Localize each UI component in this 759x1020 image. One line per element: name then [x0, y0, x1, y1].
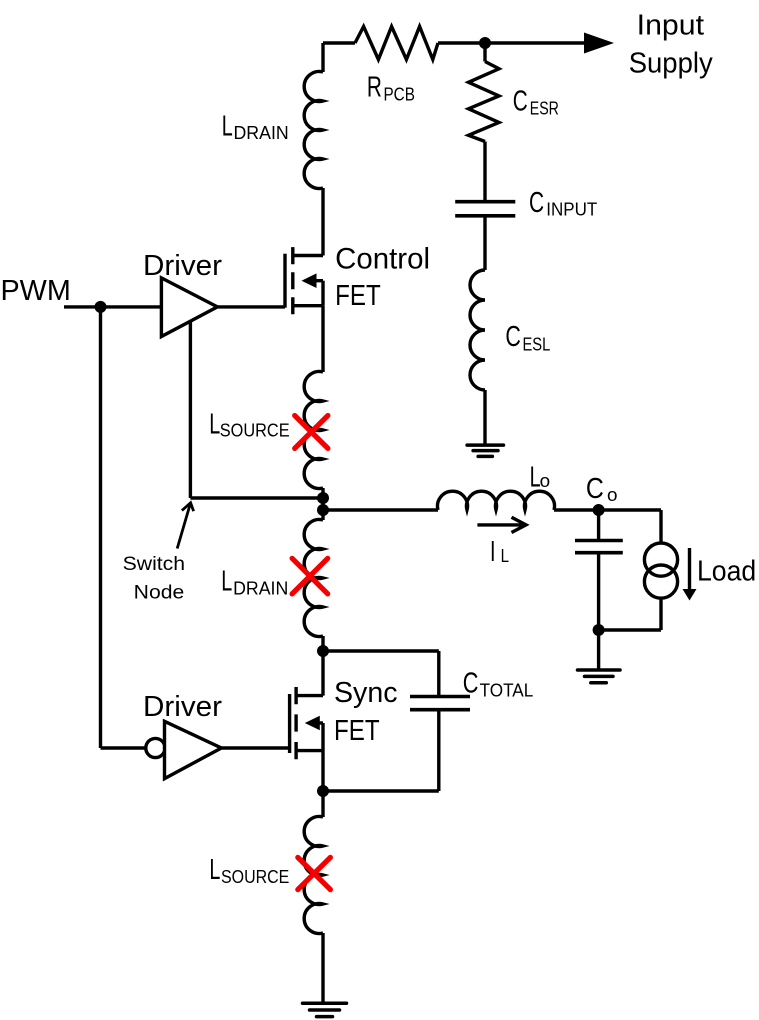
wire switch node down — [321, 510, 324, 520]
svg-text:C: C — [586, 473, 604, 505]
capacitor CINPUT — [455, 202, 515, 216]
capacitor Co — [575, 510, 623, 630]
op-amp driver U1 — [161, 278, 217, 337]
svg-text:o: o — [607, 484, 618, 505]
node PWM junction — [95, 301, 107, 313]
node sync source — [317, 785, 329, 797]
inductor Lo — [438, 491, 555, 510]
wire top rail right — [438, 41, 586, 44]
svg-text:Sync: Sync — [334, 677, 398, 709]
red X on upper LSOURCE — [295, 416, 328, 449]
node Co top — [593, 504, 605, 516]
svg-text:SOURCE: SOURCE — [220, 420, 290, 441]
inductor LDRAIN lower — [304, 520, 323, 637]
wire CINPUT to CESL — [483, 216, 486, 270]
svg-text:R: R — [367, 72, 382, 104]
wire Co to ground — [597, 630, 600, 670]
svg-text:Switch: Switch — [123, 554, 186, 575]
svg-text:C: C — [505, 321, 521, 353]
node switch node B — [317, 504, 329, 516]
ground input branch — [467, 445, 503, 456]
svg-text:L: L — [501, 545, 509, 566]
svg-text:L: L — [209, 408, 220, 440]
wire CESL to ground — [483, 390, 486, 445]
wire PWM input — [64, 305, 161, 308]
resistor RPCB — [355, 27, 438, 60]
ground main — [303, 1003, 347, 1016]
svg-text:L: L — [221, 566, 232, 598]
op-amp driver U2 inverting — [146, 721, 290, 778]
svg-text:INPUT: INPUT — [546, 199, 597, 220]
red X on lower LDRAIN — [292, 558, 328, 594]
svg-text:C: C — [529, 187, 544, 219]
svg-text:Driver: Driver — [143, 250, 223, 282]
arrow input supply head — [584, 33, 614, 54]
svg-text:PCB: PCB — [384, 84, 415, 105]
svg-text:FET: FET — [335, 280, 381, 312]
arrow IL — [477, 523, 522, 526]
wire to sync drain node — [321, 636, 324, 651]
inductor LDRAIN top — [304, 71, 323, 188]
transistor control FET Q1 — [285, 247, 323, 314]
node switch node A — [317, 492, 329, 504]
svg-text:DRAIN: DRAIN — [234, 122, 289, 143]
arrow load current — [688, 548, 691, 592]
svg-text:Input: Input — [637, 10, 704, 42]
svg-text:FET: FET — [334, 715, 380, 747]
svg-text:Control: Control — [335, 242, 430, 275]
wire PWM vertical — [99, 307, 102, 748]
wire FET1 source down — [321, 306, 324, 372]
wire to ground — [321, 933, 324, 1002]
current source Load — [644, 543, 677, 576]
wire driver1 output to gate — [217, 305, 285, 308]
wire load branch bottom — [599, 598, 661, 630]
wire LDRAIN to control FET drain — [321, 188, 324, 256]
wire CESR to CINPUT — [483, 142, 486, 202]
node Co bottom — [593, 624, 605, 636]
node sync drain — [317, 645, 329, 657]
svg-text:C: C — [513, 86, 528, 118]
wire left branch top — [321, 43, 324, 72]
svg-text:TOTAL: TOTAL — [480, 680, 534, 701]
svg-text:PWM: PWM — [1, 275, 71, 307]
svg-text:L: L — [222, 110, 233, 142]
wire sync source down — [321, 791, 324, 817]
svg-text:L: L — [209, 854, 220, 886]
svg-text:Load: Load — [697, 556, 756, 588]
inductor LSOURCE bottom — [304, 817, 323, 934]
red X on bottom LSOURCE — [298, 857, 331, 889]
capacitor CESR zigzag — [469, 62, 500, 142]
capacitor CTOTAL branch — [323, 651, 470, 791]
svg-text:ESL: ESL — [523, 334, 551, 355]
svg-text:Driver: Driver — [143, 691, 223, 723]
wire Lo to Co node — [554, 508, 661, 511]
svg-text:SOURCE: SOURCE — [221, 866, 289, 887]
svg-text:Node: Node — [134, 582, 185, 603]
arrow switch node pointer — [177, 503, 193, 549]
wire PWM corner to driver2 — [101, 746, 146, 749]
ground output — [578, 670, 621, 683]
inductor LSOURCE upper — [304, 372, 323, 489]
svg-text:DRAIN: DRAIN — [233, 578, 288, 599]
wire coil to switch node — [321, 488, 324, 510]
svg-text:o: o — [540, 470, 551, 491]
wire switch node to Lo — [323, 508, 438, 511]
svg-text:C: C — [463, 668, 479, 700]
svg-text:ESR: ESR — [530, 98, 559, 119]
wire load branch top — [659, 510, 662, 543]
inductor CESL — [470, 270, 485, 390]
wire driver1 return — [190, 322, 323, 499]
svg-text:I: I — [490, 536, 496, 568]
wire top rail left — [323, 41, 355, 44]
svg-text:Supply: Supply — [629, 47, 713, 79]
node input junction — [479, 37, 491, 49]
transistor sync FET Q2 — [290, 651, 323, 791]
wire input node down — [483, 43, 486, 62]
